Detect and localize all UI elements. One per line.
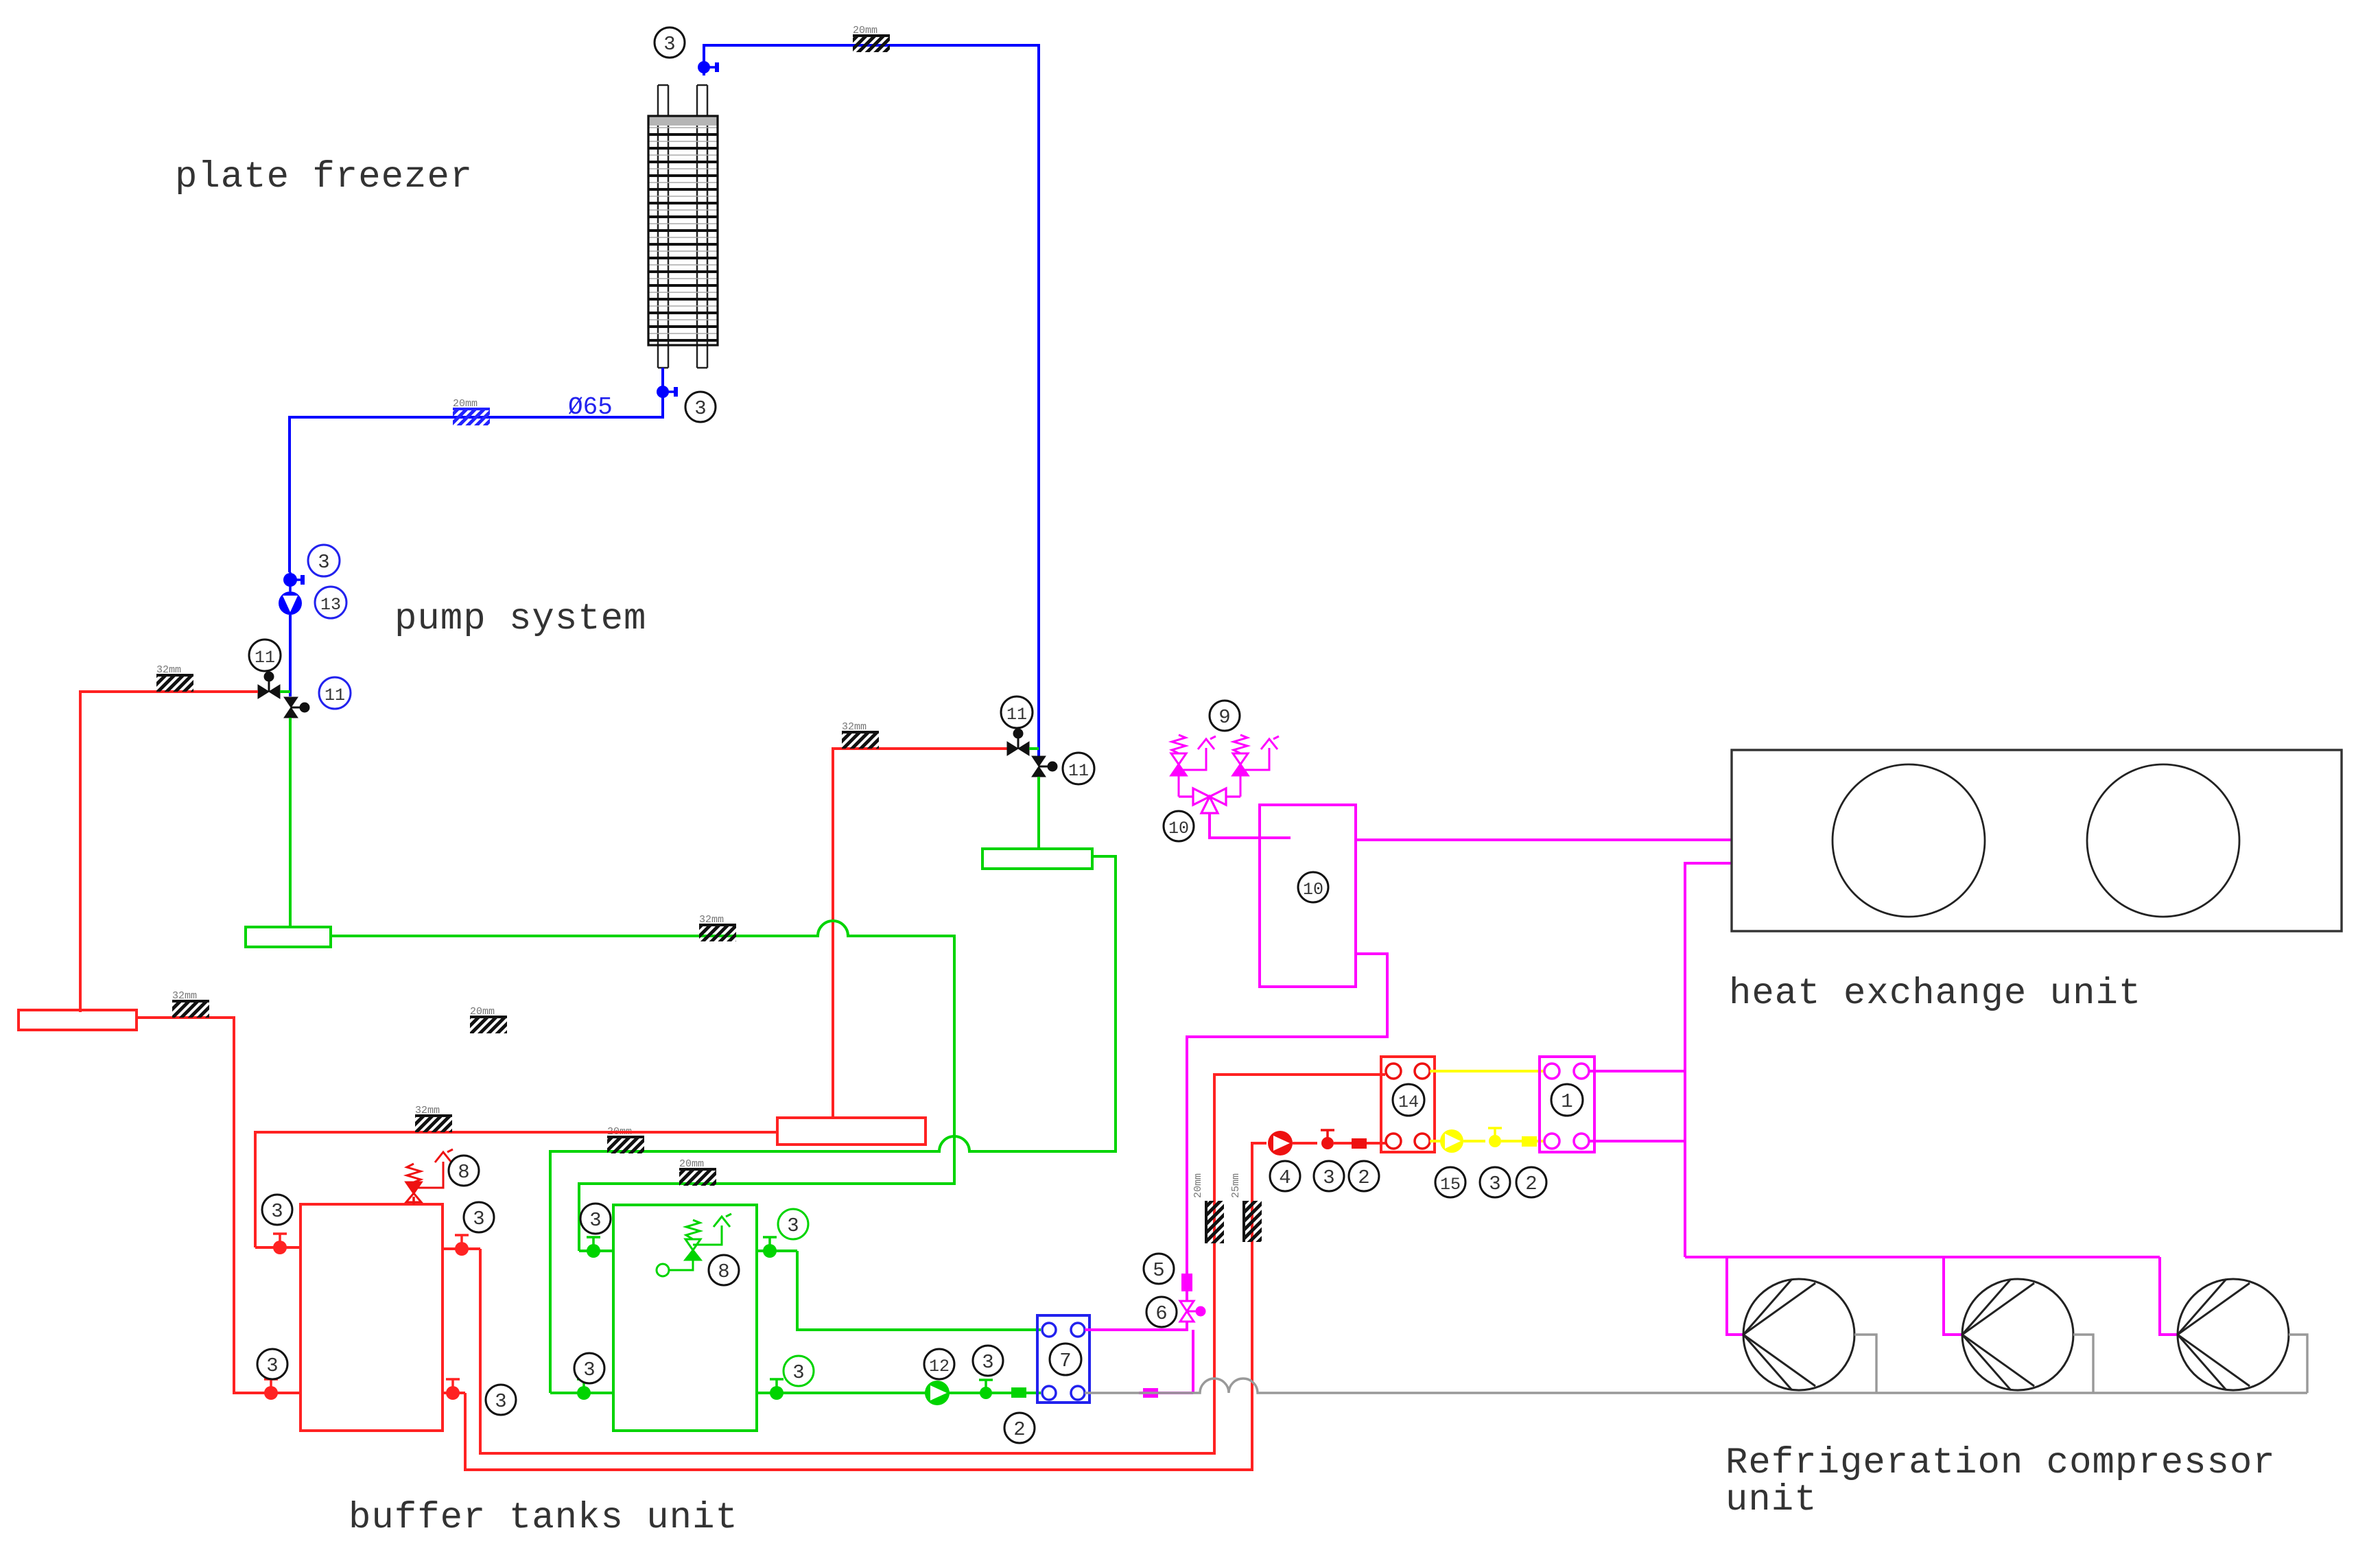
valve: blue ball valve at freezer bottom outlet xyxy=(657,386,678,398)
fitting: green reducer before HX7 xyxy=(1011,1387,1026,1398)
compressor C2 xyxy=(1962,1279,2073,1390)
insulation hatch 20mm on green pipe y1678 xyxy=(607,1126,644,1153)
wire: green pipe tank2 lower-right valve to HX7 bottom-left port (through pump 12) xyxy=(796,1392,1041,1394)
header: green pump suction header 1 (right) xyxy=(982,849,1092,869)
svg-text:1: 1 xyxy=(1561,1090,1572,1113)
fitting: yellow reducer before HX1 xyxy=(1522,1136,1544,1147)
wire: blue return pipe from freezer bottom to pump drop xyxy=(290,368,663,572)
svg-text:7: 7 xyxy=(1059,1350,1071,1372)
pump P15: yellow circulation pump xyxy=(1430,1129,1485,1153)
wire: yellow pipe HX14 top-right to HX1 top-left xyxy=(1430,1070,1544,1072)
valve: black valve on riser (blue to green transition, left) xyxy=(284,697,309,718)
svg-text:3: 3 xyxy=(271,1200,283,1223)
header: green pump suction header 2 (left) xyxy=(246,927,331,947)
svg-text:3: 3 xyxy=(318,551,329,574)
wire: gray compressor suction line with hops over red risers xyxy=(1085,1379,2307,1393)
relief valve R8b: green safety relief on tank2 xyxy=(657,1214,731,1276)
relief valve R8a: red safety relief on tank1 xyxy=(406,1149,453,1204)
pump P12: green circulation pump xyxy=(925,1381,950,1405)
svg-text:9: 9 xyxy=(1218,706,1230,729)
svg-text:10: 10 xyxy=(1303,880,1323,900)
valve: red tank1 lower-left isolation valve xyxy=(244,1379,301,1400)
valve: magenta valve 6 on riser xyxy=(1180,1301,1205,1322)
insulation hatch 32mm on green pipe y1364 xyxy=(699,914,736,941)
svg-text:2: 2 xyxy=(1013,1418,1025,1441)
wire: red pipe from riser x1214 to right junction valve xyxy=(833,749,1007,1118)
svg-text:15: 15 xyxy=(1440,1175,1461,1195)
svg-text:3: 3 xyxy=(1323,1166,1334,1189)
valve: blue ball valve above pump 13 xyxy=(283,572,305,591)
valve: magenta 3-way relief selector valve xyxy=(1179,788,1240,813)
svg-text:13: 13 xyxy=(320,595,341,615)
valve: blue ball valve at freezer top outlet xyxy=(698,61,719,73)
wire: magenta pipe from HX7 top-right port to valve 6 riser xyxy=(1085,1321,1187,1330)
pump P13: blue circulation pump xyxy=(279,591,302,696)
wire: magenta branch to HX1 top-right port xyxy=(1589,1070,1685,1072)
compressor C3 xyxy=(2178,1279,2289,1390)
svg-text:unit: unit xyxy=(1725,1479,1817,1521)
svg-text:11: 11 xyxy=(1006,705,1027,725)
insulation hatch 32mm on red pipe xyxy=(172,990,209,1018)
fitting: magenta marker on suction line xyxy=(1139,1388,1193,1398)
tank T2: green buffer tank xyxy=(613,1205,757,1431)
heat exchanger HX7: blue plate heat exchanger xyxy=(1037,1315,1089,1403)
valve: red tank1 upper-left isolation valve xyxy=(255,1234,301,1254)
insulation hatch 32mm on red pipe y1091 xyxy=(842,721,879,749)
valve: yellow inline valve xyxy=(1488,1128,1522,1147)
insulation hatch 20mm on green pipe y1725 xyxy=(679,1158,716,1186)
insulation hatch 20mm (isolated, mid drawing) xyxy=(470,1006,507,1033)
fan circle 2 of heat exchange unit xyxy=(2087,764,2239,917)
wire: magenta branch to HX1 bottom-right port xyxy=(1589,1140,1685,1142)
wire: gray stub compressor C2 to suction line xyxy=(2073,1335,2093,1393)
valve: green tank2 upper-right isolation valve xyxy=(757,1237,797,1258)
wire: red pipe tank1 lower-right valve down and across to pump 4 riser xyxy=(465,1143,1266,1470)
wire: magenta pipe heat exchange unit to condenser drop xyxy=(1685,863,1732,1257)
valve: green tank2 lower-right isolation valve xyxy=(757,1379,796,1400)
svg-text:3: 3 xyxy=(1489,1173,1500,1195)
svg-text:pump system: pump system xyxy=(394,598,646,640)
svg-text:8: 8 xyxy=(718,1260,729,1283)
svg-text:3: 3 xyxy=(583,1359,595,1381)
valve: red tank1 lower-right isolation valve xyxy=(443,1379,465,1400)
wire: red pipe tank1 upper-right valve down and across to HX14 riser xyxy=(480,1075,1385,1453)
wire: magenta pipe vessel10 to heat exchange unit xyxy=(1356,838,1732,841)
plate freezer evaporator block xyxy=(658,85,707,368)
insulation hatch 20mm on blue top pipe xyxy=(853,25,890,52)
vessel V10: magenta receiver vessel xyxy=(1260,805,1356,987)
svg-text:5: 5 xyxy=(1153,1259,1164,1282)
valve: red inline valve after pump 4 xyxy=(1321,1130,1352,1149)
svg-text:12: 12 xyxy=(929,1357,950,1376)
wire: green pipe header1 to tank2 lower-left valve (with hop over green drop) xyxy=(550,856,1116,1393)
svg-text:Ø65: Ø65 xyxy=(568,393,613,421)
wire: red pipe tank1 upper-left riser to red header 4 xyxy=(255,1132,777,1247)
tank T1: red buffer tank xyxy=(301,1204,443,1431)
wire: gray stub compressor C1 to suction line xyxy=(1854,1335,1876,1393)
valve: black 3-way junction valve left (red tee into riser) xyxy=(258,672,290,699)
valve: green tank2 upper-left isolation valve xyxy=(579,1237,613,1258)
wire: green pipe header2 to tank2 upper-left valve (with hop over red riser) xyxy=(331,921,954,1251)
svg-text:3: 3 xyxy=(982,1351,993,1374)
valve: green inline valve after pump 12 xyxy=(979,1380,993,1399)
relief valve pair 9: magenta safety valves with vent arrows xyxy=(1171,735,1279,797)
wire: red branch pipe from left riser to junction valve xyxy=(80,692,258,1012)
svg-text:11: 11 xyxy=(255,648,275,668)
insulation hatch on red riser x1825 (vertical) xyxy=(1230,1173,1262,1242)
svg-text:3: 3 xyxy=(495,1390,506,1413)
svg-text:4: 4 xyxy=(1279,1166,1291,1189)
wire: magenta dip tube into vessel from relief manifold xyxy=(1210,814,1291,838)
wire: green drop from valve to pump-system header 1 xyxy=(1037,777,1040,850)
valve: black valve on riser (blue to green transition, right) xyxy=(1032,756,1057,777)
fan circle 1 of heat exchange unit xyxy=(1833,764,1985,917)
svg-text:Refrigeration compressor: Refrigeration compressor xyxy=(1725,1442,2276,1484)
insulation hatch 32mm on red pipe y1650 xyxy=(415,1105,452,1132)
svg-text:3: 3 xyxy=(792,1361,804,1384)
svg-text:14: 14 xyxy=(1398,1092,1419,1112)
insulation hatch on red riser x1770 (vertical) xyxy=(1192,1173,1224,1243)
wire: magenta riser continuation up to receiver vessel 10 xyxy=(1187,954,1387,1274)
svg-text:8: 8 xyxy=(458,1161,469,1184)
svg-text:6: 6 xyxy=(1155,1302,1167,1325)
header: red distribution header (far left) xyxy=(19,1010,137,1030)
valve: red tank1 upper-right isolation valve xyxy=(443,1235,480,1256)
valve: black 3-way junction valve right (red tee into blue riser) xyxy=(1007,729,1039,755)
wire: green drop from valve to pump-system header 2 xyxy=(289,718,292,928)
pump P4: red circulation pump xyxy=(1268,1131,1317,1156)
svg-text:3: 3 xyxy=(663,33,675,56)
fitting: magenta marker 5 on riser xyxy=(1181,1274,1192,1291)
svg-text:11: 11 xyxy=(1068,761,1089,781)
wire: red pipe from left header to buffer tank 1 bottom-left valve xyxy=(137,1018,254,1393)
svg-text:3: 3 xyxy=(787,1215,799,1237)
compressor C1 xyxy=(1743,1279,1854,1390)
tag circles (green) xyxy=(778,1209,814,1386)
svg-text:3: 3 xyxy=(473,1208,484,1230)
header: red return header 4 (middle) xyxy=(777,1118,926,1145)
svg-text:10: 10 xyxy=(1168,819,1189,838)
svg-text:3: 3 xyxy=(266,1354,278,1377)
wire: blue supply pipe from freezer top to right drop xyxy=(704,45,1039,756)
svg-text:2: 2 xyxy=(1525,1173,1537,1195)
svg-text:25mm: 25mm xyxy=(1230,1173,1242,1198)
valve: green tank2 lower-left isolation valve xyxy=(550,1379,613,1400)
tag circles (blue) xyxy=(308,545,351,709)
insulation hatch 20mm on blue bottom pipe (blue) xyxy=(453,398,490,425)
svg-text:heat exchange unit: heat exchange unit xyxy=(1729,973,2141,1015)
wire: magenta riser from condenser drain down to valve 6 and gray suction line xyxy=(1186,1274,1188,1301)
wire: gray stub compressor C3 to suction line xyxy=(2289,1335,2307,1393)
tag circles (black) xyxy=(249,27,1583,1443)
svg-text:buffer tanks unit: buffer tanks unit xyxy=(349,1497,738,1539)
svg-text:3: 3 xyxy=(589,1209,601,1232)
unit: heat exchange unit enclosure xyxy=(1732,750,2342,931)
svg-text:2: 2 xyxy=(1358,1166,1369,1189)
heat exchanger HX14: red plate heat exchanger xyxy=(1381,1057,1435,1152)
insulation hatch 32mm on red branch xyxy=(156,664,193,692)
svg-text:3: 3 xyxy=(694,397,706,420)
svg-text:11: 11 xyxy=(325,685,345,705)
wire: magenta discharge header to compressors xyxy=(1685,1256,2160,1258)
fitting: red reducer before HX14 xyxy=(1352,1138,1385,1149)
svg-text:plate freezer: plate freezer xyxy=(175,156,473,198)
svg-text:20mm: 20mm xyxy=(1192,1173,1204,1198)
heat exchanger HX1: magenta plate heat exchanger xyxy=(1540,1057,1594,1152)
wire: green pipe tank2 upper-right valve to HX7 top-left port xyxy=(797,1251,1041,1330)
